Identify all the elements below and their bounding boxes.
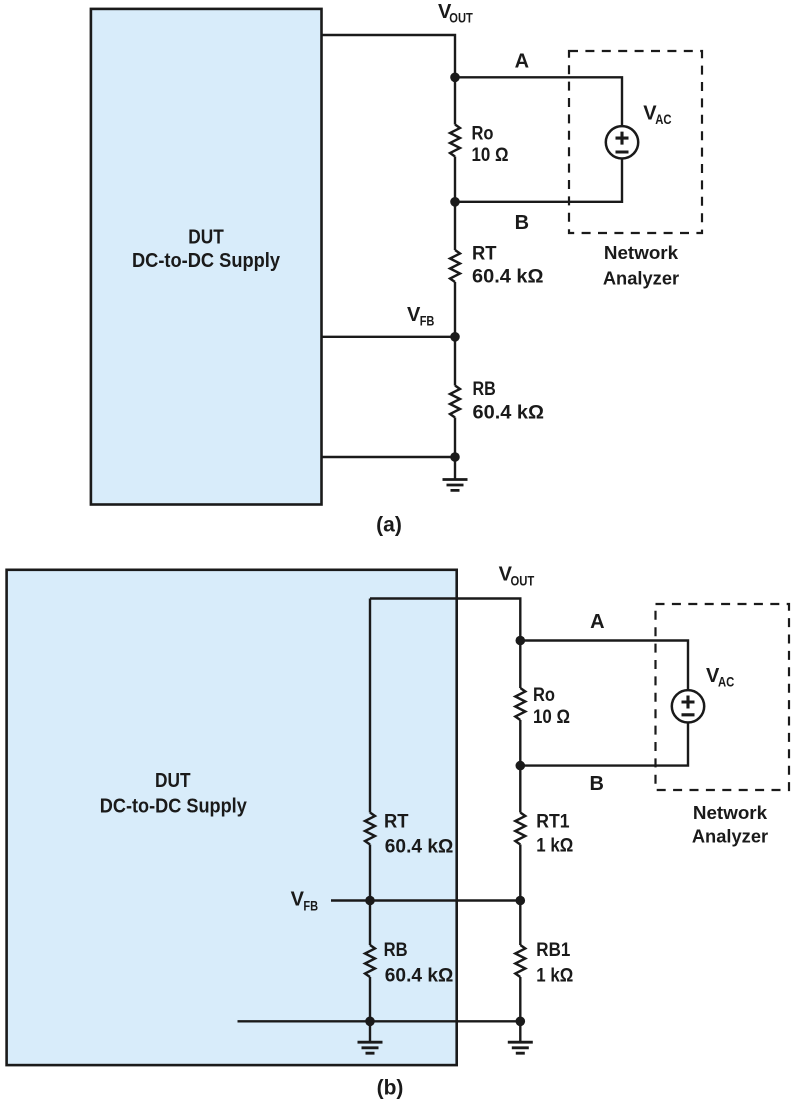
node VOUT label (b) — [499, 564, 535, 589]
svg-text:AC: AC — [718, 674, 734, 690]
AC source VAC (a) — [606, 126, 638, 158]
svg-text:DUT: DUT — [155, 770, 191, 792]
svg-text:60.4 kΩ: 60.4 kΩ — [473, 402, 545, 423]
svg-text:RB: RB — [473, 379, 496, 400]
network analyzer label (a) — [603, 243, 679, 289]
wire Ro bottom through node B to RT1 top (b) — [519, 720, 521, 813]
wire source bottom to node B (a) — [455, 158, 622, 201]
VAC label (a) — [643, 102, 671, 127]
DUT DC-to-DC Supply block (b) — [7, 570, 457, 1065]
node VFB junction dot (a) — [450, 332, 460, 342]
resistor RB (b) — [365, 945, 375, 977]
value label RB1 1 kohm (b) — [536, 940, 573, 987]
network analyzer label (b) — [692, 803, 768, 846]
node B junction dot (b) — [516, 761, 526, 771]
wire internal divider branch top (b) — [369, 599, 371, 813]
svg-text:A: A — [590, 611, 604, 633]
svg-text:1 kΩ: 1 kΩ — [536, 836, 573, 857]
resistor Ro (b) — [515, 688, 525, 720]
svg-text:Ro: Ro — [533, 685, 555, 706]
wire VFB rail (b) — [331, 899, 520, 901]
svg-text:10 Ω: 10 Ω — [472, 145, 509, 166]
ground right (b) — [508, 1042, 533, 1053]
svg-text:OUT: OUT — [449, 11, 473, 26]
svg-text:DUT: DUT — [188, 227, 224, 249]
wire RT bottom through VFB to RB top (b) — [369, 845, 371, 946]
node A junction dot (a) — [450, 73, 460, 83]
wire DUT return to ground node (a) — [322, 456, 455, 458]
resistor RT (a) — [450, 250, 460, 282]
svg-text:Ro: Ro — [472, 124, 494, 145]
svg-text:(a): (a) — [376, 514, 402, 537]
svg-text:B: B — [515, 212, 529, 234]
AC source VAC (b) — [672, 690, 704, 722]
wire DUT output to VOUT corner down to node A (a) — [322, 35, 455, 125]
svg-text:Analyzer: Analyzer — [603, 269, 679, 289]
wire DUT feedback to VFB node (a) — [322, 336, 455, 338]
network analyzer dashed box (a) — [569, 51, 702, 233]
svg-text:60.4 kΩ: 60.4 kΩ — [472, 267, 544, 288]
value label RT 60.4 kohm (b) — [384, 812, 453, 858]
DUT DC-to-DC Supply block (a) — [91, 9, 322, 505]
wire RB bottom to ground (b) — [369, 977, 371, 1042]
svg-text:FB: FB — [420, 314, 435, 329]
ground rail junction dot right (b) — [516, 1017, 526, 1027]
value label RB 60.4 kohm (b) — [384, 940, 454, 987]
value label Ro 10 ohm (b) — [533, 685, 570, 728]
wire RT1 bottom through VFB to RB1 top (b) — [519, 845, 521, 946]
wire source bottom to node B (b) — [520, 722, 688, 765]
svg-text:DC-to-DC Supply: DC-to-DC Supply — [132, 250, 281, 272]
svg-text:FB: FB — [303, 898, 318, 913]
wire node A to network analyzer source top (a) — [455, 77, 622, 126]
network analyzer dashed box (b) — [656, 604, 790, 790]
wire RT bottom through VFB node to RB top (a) — [454, 282, 456, 386]
svg-text:60.4 kΩ: 60.4 kΩ — [385, 966, 454, 987]
svg-text:B: B — [589, 773, 603, 795]
resistor Ro (a) — [450, 125, 460, 157]
wire node A to source top (b) — [520, 641, 688, 691]
value label Ro 10 ohm (a) — [472, 124, 509, 167]
svg-text:Network: Network — [693, 803, 768, 823]
svg-text:RB1: RB1 — [536, 940, 570, 961]
wire DUT output over top to node A (b) — [370, 599, 520, 641]
svg-text:DC-to-DC Supply: DC-to-DC Supply — [100, 796, 248, 818]
wire ground rail (b) — [238, 1020, 521, 1022]
node VFB label (a) — [407, 304, 435, 329]
svg-text:RB: RB — [384, 940, 408, 961]
node VFB junction dot right (b) — [516, 896, 526, 906]
svg-text:(b): (b) — [377, 1076, 404, 1099]
VAC label (b) — [706, 665, 734, 690]
wire Ro bottom to node B (a) — [454, 157, 456, 251]
svg-text:10 Ω: 10 Ω — [533, 707, 570, 728]
value label RT1 1 kohm (b) — [536, 812, 573, 857]
svg-text:Network: Network — [604, 243, 679, 263]
svg-text:Analyzer: Analyzer — [692, 826, 768, 846]
svg-text:1 kΩ: 1 kΩ — [536, 966, 573, 987]
node A junction dot (b) — [516, 636, 526, 646]
value label RB 60.4 kohm (a) — [473, 379, 545, 423]
resistor RB (a) — [450, 386, 460, 418]
ground node junction dot (a) — [450, 452, 460, 462]
wire RB1 bottom to ground (b) — [519, 977, 521, 1042]
node VFB label (b) — [291, 889, 319, 914]
node VFB junction dot left (b) — [365, 896, 375, 906]
value label RT 60.4 kohm (a) — [472, 244, 544, 288]
svg-text:RT1: RT1 — [536, 812, 570, 833]
ground left (b) — [358, 1042, 383, 1053]
wire RB bottom to ground (a) — [454, 418, 456, 480]
ground (a) — [443, 480, 468, 491]
wire A to Ro top (b) — [519, 641, 521, 689]
node B junction dot (a) — [450, 197, 460, 207]
resistor RT (b) — [365, 813, 375, 845]
svg-text:OUT: OUT — [511, 573, 535, 588]
svg-text:AC: AC — [655, 111, 671, 127]
node VOUT label (a) — [438, 1, 473, 26]
svg-text:RT: RT — [472, 244, 497, 265]
svg-text:RT: RT — [384, 812, 409, 833]
svg-text:60.4 kΩ: 60.4 kΩ — [385, 836, 454, 857]
resistor RT1 (b) — [515, 813, 525, 845]
svg-text:A: A — [515, 51, 529, 73]
resistor RB1 (b) — [515, 945, 525, 977]
ground rail junction dot left (b) — [365, 1017, 375, 1027]
